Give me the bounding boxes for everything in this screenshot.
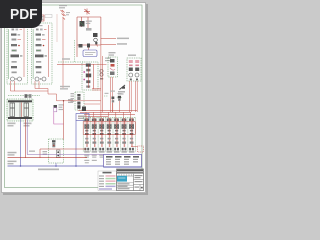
- labels left of cluster: [60, 86, 70, 87]
- legend table: [98, 171, 117, 190]
- valve section S5: [113, 112, 119, 158]
- wire: pressure header to valve cluster: [57, 64, 90, 66]
- pilot valve V15: [117, 93, 122, 112]
- filter F1: [100, 69, 103, 79]
- wire: magenta pilot loop: [54, 112, 64, 124]
- power pack box (motor-pump group): [127, 55, 141, 82]
- PDF badge: [0, 0, 42, 28]
- gauge station G1: [54, 99, 74, 140]
- drain box red dashed: [138, 146, 144, 152]
- wire: blue control bus: [8, 165, 104, 167]
- tank vent cluster near badge: [59, 5, 70, 20]
- valve section S6: [120, 112, 126, 158]
- wire: red return bus: [8, 157, 88, 159]
- solenoid junction block: [82, 107, 86, 112]
- wire: red drops below units to return header: [11, 81, 57, 101]
- wire: purple pilot bus: [27, 154, 103, 156]
- return unit (green dashed, bottom left of centre): [40, 139, 86, 167]
- drawing sheet: [1, 2, 146, 193]
- hand pump HP1: [118, 85, 125, 95]
- valve section S4: [106, 112, 112, 158]
- wire: red drop to return unit: [63, 101, 65, 140]
- central control valve cluster U5: [82, 62, 98, 90]
- plc loop (blue): [76, 114, 89, 121]
- power unit A1 (left accumulator stack): [7, 23, 28, 84]
- connection table (purple box): [104, 155, 142, 168]
- node: bus junctions: [20, 165, 22, 167]
- wire: drain stub: [131, 146, 138, 148]
- accumulator valve V12: [71, 92, 85, 110]
- labels under cylinders: [8, 123, 16, 125]
- wire: bank tank rail: [83, 134, 135, 136]
- logo: [117, 176, 127, 182]
- shutoff valve V14: [110, 91, 115, 113]
- pump P3: [79, 33, 99, 50]
- actuator notes under S1/S2: [84, 160, 89, 161]
- valve section S2: [91, 112, 97, 158]
- wire: manifold headers above valve bank: [78, 111, 137, 117]
- node J1: [63, 100, 64, 101]
- valve section S1: [83, 112, 89, 158]
- main pump loop: [77, 17, 101, 57]
- controller box (blue): [83, 50, 97, 57]
- wire: power pack drops: [130, 81, 138, 112]
- wire: centre risers: [57, 45, 103, 112]
- cooler (top centre cross): [84, 9, 90, 15]
- riser labels: [105, 58, 111, 59]
- cylinder CYL1: [10, 103, 15, 117]
- wire: pilot branch: [84, 103, 100, 105]
- wire: blue drop to bus: [75, 121, 77, 167]
- cylinder block assembly: [7, 99, 33, 127]
- level label: [29, 151, 35, 152]
- pilot line green dashed: [74, 40, 76, 62]
- relief valve V10: [80, 21, 92, 31]
- valve section S7: [128, 112, 134, 158]
- breather component above unit A2: [38, 15, 52, 22]
- valve section S3: [98, 112, 104, 158]
- pilot unit right (green dashed): [108, 52, 118, 112]
- legend note lines top right: [101, 38, 130, 45]
- cylinder CYL2: [24, 103, 29, 117]
- wire: bank end caps: [82, 122, 84, 135]
- bus labels left: [8, 152, 17, 154]
- wire: cluster to risers: [91, 64, 107, 66]
- drain gallery green dashed: [8, 95, 40, 97]
- wire: left risers: [56, 14, 58, 42]
- power unit A2 (second accumulator stack): [32, 23, 53, 84]
- title block: [117, 169, 144, 191]
- wire: pilot gallery: [58, 61, 83, 63]
- wire: return header: [11, 90, 49, 92]
- wire: bank pressure rail: [83, 121, 135, 123]
- wire: cylinder drops: [20, 119, 22, 166]
- drawing frame border: [5, 5, 143, 188]
